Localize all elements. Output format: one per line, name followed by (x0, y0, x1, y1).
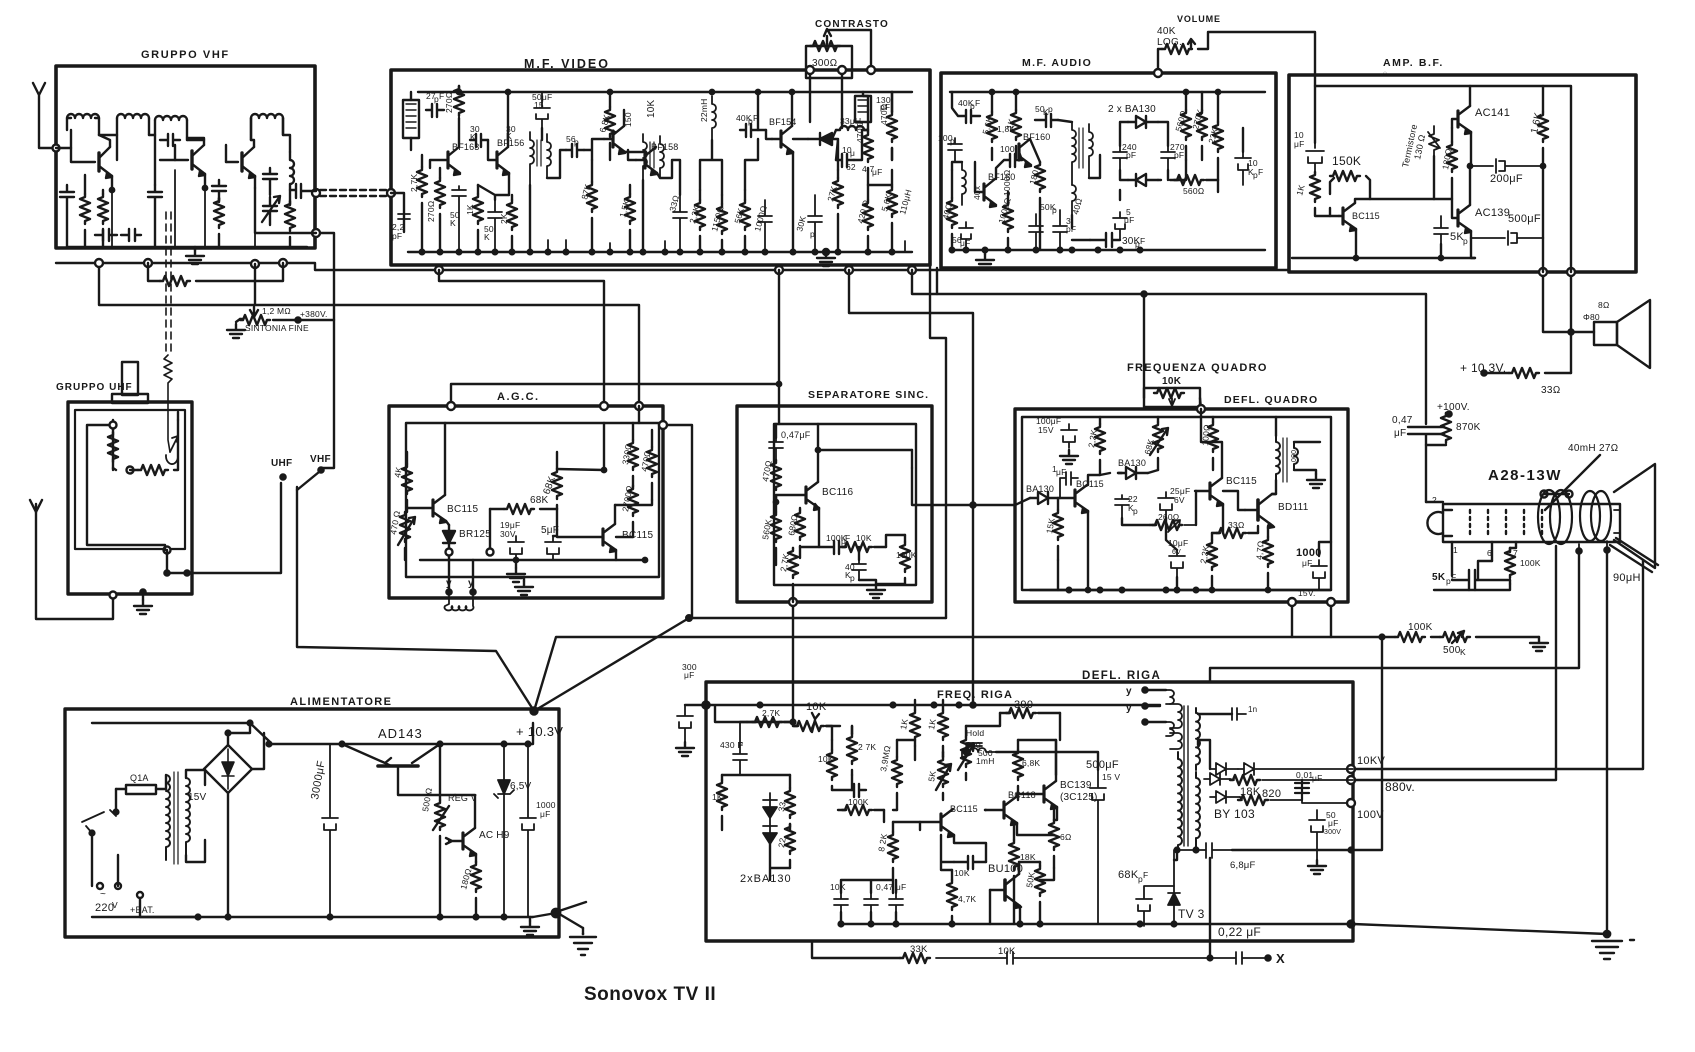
flyback y coil top (1170, 704, 1182, 728)
svg-text:15V.: 15V. (1298, 588, 1316, 598)
svg-text:pF: pF (392, 231, 402, 241)
svg-text:6,8μF: 6,8μF (1230, 860, 1255, 871)
svg-text:μF: μF (872, 167, 883, 177)
node bus dots fr (758, 703, 763, 708)
resistor 420 ohm (863, 200, 873, 230)
svg-text:2,7K: 2,7K (409, 174, 419, 192)
resistor 2,7K fr b (847, 734, 857, 764)
node junction on bus (435, 266, 443, 274)
box SEPARATORE SINC inner (774, 424, 916, 585)
node circle VHF bus c (251, 260, 259, 268)
transistor BC115 agc2 (601, 529, 604, 545)
transistor Q2 VHF (190, 151, 193, 169)
node bc116 col (816, 448, 820, 452)
yoke terminals (1541, 491, 1548, 498)
capacitor 3000uF (322, 744, 338, 917)
resistor uhf horizontal (113, 468, 138, 470)
switch blade (297, 472, 319, 490)
svg-text:4,7Ω: 4,7Ω (1254, 540, 1266, 560)
capacitor 10uF input (1306, 143, 1324, 172)
node VHF box exit (312, 229, 320, 237)
wire dq input (973, 498, 1030, 505)
label pointer 40mH (1545, 455, 1600, 510)
resistor 180 mfa (1035, 162, 1045, 192)
wire sep bottom links (819, 508, 905, 584)
svg-text:FREQUENZA QUADRO: FREQUENZA QUADRO (1127, 362, 1268, 374)
wire alim mid rail (269, 723, 533, 744)
svg-text:300Ω: 300Ω (812, 58, 838, 69)
svg-text:BU100: BU100 (988, 863, 1023, 875)
CRT neck slash (1610, 538, 1658, 572)
resistor 18K fr (1009, 840, 1019, 870)
node riga circle 100V (1347, 799, 1355, 807)
resistor 470 top right (887, 112, 897, 142)
svg-text:VHF: VHF (310, 454, 331, 465)
node converge point (531, 708, 538, 715)
box GRUPPO UHF inner (75, 410, 185, 549)
ground 300uF (676, 742, 694, 756)
capacitor 1000 (758, 200, 772, 252)
node contrasto circles (806, 66, 814, 74)
resistor 1K ampbf (1310, 172, 1320, 202)
svg-text:10μF: 10μF (1168, 538, 1188, 548)
capacitor 10K fr cap (832, 784, 866, 797)
coil 33uH (836, 126, 868, 130)
svg-text:pF: pF (1174, 150, 1184, 160)
capacitor 10K1 fr (834, 893, 848, 912)
resistor contrasto (810, 41, 840, 51)
svg-text:SEPARATORE SINC.: SEPARATORE SINC. (808, 389, 929, 401)
svg-text:BC115: BC115 (1352, 211, 1380, 221)
svg-text:A.G.C.: A.G.C. (497, 391, 540, 403)
svg-text:2 7K: 2 7K (858, 742, 876, 752)
flyback transformer core (1184, 706, 1188, 846)
node mid rail dots (340, 742, 345, 747)
svg-text:5,6K: 5,6K (980, 115, 994, 135)
svg-text:M.F. VIDEO: M.F. VIDEO (524, 57, 610, 71)
pot 68K dq (1153, 422, 1163, 452)
node dq bus dots2 (1067, 588, 1072, 593)
wire pot to box (1144, 294, 1201, 409)
svg-text:p: p (850, 573, 855, 583)
resistor 1,5K (625, 194, 635, 224)
wire agc right link (615, 500, 652, 537)
node agc bus dots (448, 559, 451, 562)
coil 1mH (962, 743, 996, 757)
resistor 2,2K dq low (1207, 540, 1217, 570)
svg-text:VOLUME: VOLUME (1177, 14, 1221, 24)
transistor BC115 dq2 (1208, 483, 1211, 499)
resistor 1K mfa (1011, 110, 1021, 140)
wire ac139 (1470, 166, 1471, 238)
capacitor 3pF low (1053, 210, 1067, 250)
svg-text:33Ω: 33Ω (1541, 385, 1561, 396)
node alim exit blob (552, 909, 560, 917)
uhf trimmer (166, 436, 178, 464)
svg-text:μF: μF (1394, 428, 1406, 439)
node mfv dots (457, 90, 461, 94)
capacitor 30KpF b (808, 195, 822, 252)
wire bridge left (204, 768, 205, 770)
wire contrasto drops (810, 74, 842, 128)
wire ac139 emitter to bus (1471, 238, 1475, 258)
node antenna in (53, 145, 60, 152)
node junction on bus (908, 266, 916, 274)
resistor 100K CRT (1509, 548, 1511, 552)
capacitor 300uF outside (677, 705, 693, 742)
svg-text:100K: 100K (896, 550, 917, 560)
fuse Q1A (126, 785, 156, 794)
capacitor C1 vhf (60, 185, 74, 247)
svg-text:p: p (574, 137, 579, 147)
node x973 dot (970, 702, 975, 707)
transistor BC118 fr (1002, 802, 1005, 818)
resistor 1K fr l (717, 780, 727, 810)
pot 10K fr (794, 721, 824, 731)
wire 500uF to bottom (1542, 238, 1544, 272)
transistor ACH9 reg (461, 833, 464, 849)
svg-text:μF: μF (1312, 773, 1323, 783)
resistor R2 vhf (98, 194, 108, 224)
transformer mains (166, 775, 170, 860)
capacitor 50KpF a (452, 186, 466, 252)
wire sep sinc drop x793 (792, 602, 794, 722)
wire bc116 collector (818, 424, 912, 482)
svg-text:500: 500 (978, 748, 993, 758)
svg-text:SINTONIA FINE: SINTONIA FINE (245, 323, 309, 333)
svg-text:1: 1 (1453, 545, 1458, 555)
svg-text:150: 150 (623, 112, 633, 127)
resistor 560ohm 270K a (1181, 110, 1191, 140)
capacitor 40KpF mfa (952, 92, 980, 123)
svg-text:F: F (738, 740, 743, 750)
capacitor 10uF 6V dq (1169, 550, 1185, 577)
svg-text:p: p (810, 229, 815, 239)
wire feed under MF AUDIO (936, 268, 938, 294)
svg-text:33K: 33K (910, 944, 928, 955)
svg-text:1,2 MΩ: 1,2 MΩ (262, 306, 291, 316)
capacitor C6 output (290, 184, 316, 198)
svg-text:40x: 40x (972, 185, 982, 200)
wire d1 left (1198, 738, 1210, 769)
svg-text:270K: 270K (1190, 108, 1205, 131)
node DEFL RIGA exits (1347, 765, 1355, 773)
resistor 6,8K (605, 107, 615, 137)
capacitor 270pF (1161, 146, 1175, 170)
svg-text:2K: 2K (499, 213, 509, 224)
svg-text:FREQ. RIGA: FREQ. RIGA (937, 689, 1013, 701)
wire transformer sec to bridge (186, 770, 205, 862)
svg-text:K: K (470, 132, 476, 142)
wire mfv links (478, 92, 892, 252)
capacitor 22KpF dq (1115, 495, 1129, 518)
wire dq links (1058, 409, 1331, 590)
transistor BF156 (495, 152, 498, 168)
pot Hold 390 (961, 737, 971, 767)
terminal +BAT (137, 892, 143, 898)
svg-text:μF: μF (1056, 467, 1067, 477)
svg-text:270Ω: 270Ω (426, 200, 436, 222)
wire uhf right column (177, 412, 179, 420)
pot 500K bottom (1440, 632, 1470, 642)
svg-text:1,5K: 1,5K (617, 198, 631, 218)
node dq input dot (970, 502, 975, 507)
capacitor 30KpF (470, 134, 488, 147)
svg-text:0,22 μF: 0,22 μF (1218, 925, 1261, 939)
resistor 33K bottom (900, 953, 930, 963)
svg-text:F: F (845, 533, 850, 543)
wire UHF out to switch (167, 483, 281, 573)
switch UHF contact (280, 474, 285, 479)
capacitor 50uF 300V (1309, 810, 1325, 860)
node circle VHF bus a (95, 259, 103, 267)
flyback secondary bottom (1196, 772, 1200, 850)
svg-text:2: 2 (1432, 495, 1437, 505)
wire sep to dq feed (912, 468, 973, 505)
svg-text:pF: pF (1066, 224, 1076, 234)
resistor 50K fr rot (1035, 866, 1045, 896)
node pot right circle (1197, 405, 1205, 413)
CRT funnel (1614, 464, 1655, 568)
node circle 19uF top (487, 549, 494, 556)
transistor BF mid (611, 131, 614, 147)
resistor 100K bottom (1395, 632, 1425, 642)
wire agc bottom bus (420, 559, 645, 561)
svg-text:BC115: BC115 (622, 530, 653, 541)
svg-text:100Ω: 100Ω (1200, 424, 1212, 447)
svg-text:270Ω: 270Ω (444, 91, 454, 113)
UHF knob (112, 394, 148, 403)
svg-text:3000μF: 3000μF (309, 760, 328, 801)
ground below alim right (582, 928, 584, 934)
wire q3 exit (255, 188, 316, 233)
svg-text:μF: μF (540, 809, 551, 819)
zener 6,5V (494, 744, 514, 917)
svg-text:10K: 10K (1162, 376, 1182, 387)
resistor R1 vhf (80, 194, 90, 224)
svg-text:1K: 1K (1294, 183, 1306, 196)
box AMP. B.F. (1289, 75, 1636, 272)
resistor 270 ohm input (435, 178, 445, 208)
svg-text:10K: 10K (806, 701, 827, 713)
resistor 2,7K sep (788, 548, 798, 578)
svg-text:500μF: 500μF (1086, 759, 1119, 771)
capacitor 0,01uF riga (1295, 780, 1309, 800)
svg-text:M.F. AUDIO: M.F. AUDIO (1022, 57, 1092, 69)
svg-text:+380V.: +380V. (300, 309, 328, 319)
svg-text:K: K (450, 218, 456, 228)
wire UHF antenna (36, 512, 113, 619)
transistor Q1 VHF (97, 153, 100, 171)
svg-text:+ 10.3V: + 10.3V (516, 724, 563, 739)
svg-text:62: 62 (846, 162, 856, 172)
svg-text:+100V.: +100V. (1437, 402, 1470, 413)
capacitor C4 vhf (212, 180, 226, 200)
capacitor interstage q2 (160, 134, 180, 160)
flyback y coil mid (1170, 733, 1182, 749)
diode riga d2 (1238, 763, 1353, 775)
node circle br125 (446, 549, 453, 556)
svg-text:880v.: 880v. (1385, 780, 1415, 794)
resistor 1K fr m1 (910, 710, 920, 740)
resistor 3,9M fr (892, 757, 902, 787)
tuning gang spring (164, 355, 172, 452)
ground 100uF (1060, 450, 1078, 464)
resistor 1150 ohm (717, 204, 727, 234)
wire 68k node (490, 509, 557, 548)
wire mfa links (952, 120, 1243, 240)
transistor BF163 (446, 152, 449, 168)
transistor BC115 dq1 (1073, 490, 1076, 506)
node fr bottom dots (839, 922, 844, 927)
svg-text:6: 6 (1487, 548, 1492, 558)
wire blob to box (533, 913, 556, 917)
node dq bottom dots (1086, 588, 1090, 592)
resistor SINTONIA FINE (240, 318, 243, 320)
CRT base dashed pins (1470, 510, 1542, 536)
svg-text:2,7K: 2,7K (762, 708, 780, 718)
wire vhf input (56, 130, 71, 148)
svg-text:1K: 1K (898, 718, 910, 730)
svg-text:AC139: AC139 (1475, 207, 1510, 219)
svg-text:10K: 10K (646, 99, 657, 118)
capacitor 50KpF mfa (1035, 114, 1058, 127)
flyback primary winding (1178, 752, 1182, 850)
capacitor 5KpF CRT (1452, 570, 1510, 590)
svg-text:15 V: 15 V (1102, 772, 1120, 782)
svg-text:DEFL. QUADRO: DEFL. QUADRO (1224, 394, 1318, 406)
svg-text:110μH: 110μH (897, 188, 913, 215)
coil y y below agc (445, 592, 474, 610)
y y terminals agc (449, 556, 473, 592)
svg-text:68K: 68K (1142, 438, 1156, 456)
wire yoke top link (1426, 494, 1569, 502)
transistor BC115 fr (939, 814, 942, 830)
capacitor 100KpF sep (800, 541, 846, 554)
resistor uhf vertical (108, 432, 118, 462)
wire Q2 (175, 138, 205, 188)
wire Q3 (226, 140, 255, 188)
pot 10K freq quadro (1144, 388, 1200, 407)
diode video det (808, 133, 832, 145)
capacitor 0,47uF sep (769, 438, 783, 460)
node UHF out (164, 547, 171, 554)
svg-text:33: 33 (776, 801, 788, 813)
resistor R3 vhf (214, 198, 224, 228)
wire amp bf to speaker left (1543, 272, 1594, 332)
resistor 4,7ohm dq (1263, 537, 1273, 567)
coil input mfa (962, 162, 966, 205)
svg-text:8 2K: 8 2K (876, 832, 889, 852)
node amp bf bottom circles (1539, 268, 1547, 276)
coil L1 (67, 114, 99, 118)
wire BF163 collector (458, 118, 460, 147)
node mfa dots (990, 90, 994, 94)
svg-text:AD143: AD143 (378, 726, 423, 741)
IF transformer audio (1072, 122, 1076, 185)
node 1,6k bottom (1541, 164, 1545, 168)
capacitor 50 KpF b (488, 200, 502, 252)
svg-text:p: p (1048, 104, 1053, 114)
ground UHF box (142, 592, 144, 600)
node X dot (1265, 955, 1270, 960)
wire ampbf bottom bus (1292, 257, 1475, 259)
svg-text:μF: μF (1302, 558, 1313, 568)
wire output down (1542, 166, 1544, 238)
svg-text:15V: 15V (188, 792, 207, 803)
ground agc 19uF (515, 560, 517, 568)
svg-text:F: F (753, 113, 758, 123)
svg-text:68K: 68K (541, 475, 558, 496)
resistor 15K dq (1053, 510, 1063, 540)
resistor 180 ohm ampbf (1447, 142, 1457, 172)
svg-text:BF163: BF163 (452, 142, 480, 152)
svg-text:100K: 100K (1408, 622, 1433, 633)
node coax ends (312, 189, 320, 197)
svg-text:2xBA130: 2xBA130 (740, 873, 792, 885)
svg-text:68K: 68K (1118, 869, 1139, 881)
diode BA130 x2 b (763, 818, 777, 844)
diode BA130 b (1128, 174, 1158, 186)
svg-text:μF: μF (1294, 139, 1305, 149)
svg-text:1K: 1K (465, 204, 475, 215)
box DEFL. RIGA outer (706, 682, 1353, 941)
resistor 270 ohm collector (454, 86, 464, 116)
svg-text:40K: 40K (1157, 26, 1176, 37)
svg-text:470Ω: 470Ω (760, 459, 774, 482)
node uhf inner circle (110, 422, 117, 429)
svg-text:3,9MΩ: 3,9MΩ (878, 744, 892, 772)
svg-text:300V: 300V (1324, 829, 1341, 836)
resistor 2,2K b (695, 200, 705, 230)
wire bridge + out (228, 723, 264, 917)
wire cap to yoke pin2 (1425, 445, 1427, 502)
svg-text:BC118: BC118 (1008, 790, 1036, 800)
svg-text:BC115: BC115 (1226, 476, 1257, 487)
resistor 1K fr m2 (938, 710, 948, 740)
svg-text:F: F (1258, 167, 1263, 177)
svg-text:p: p (1052, 205, 1057, 215)
resistor R4 vhf (285, 201, 295, 231)
svg-text:150K: 150K (1332, 154, 1361, 168)
resistor 1000 ohm low (1003, 202, 1013, 232)
wire alim top rail (92, 722, 250, 724)
svg-text:000: 000 (1291, 450, 1298, 462)
svg-text:+BAT.: +BAT. (130, 905, 155, 915)
ground mfa (984, 250, 986, 254)
transistor BC116 (804, 487, 807, 503)
svg-text:DEFL. RIGA: DEFL. RIGA (1082, 670, 1161, 682)
svg-text:560Ω: 560Ω (1183, 186, 1205, 196)
pot VOLUME (1158, 49, 1162, 73)
arrow volume wiper (1188, 39, 1195, 49)
wire x973 into box (972, 682, 974, 705)
capacitor 5uF (1113, 212, 1127, 240)
capacitor 0,47uF CRT feed (1408, 427, 1446, 445)
resistor 150K (1330, 178, 1334, 216)
speaker 8ohm (1594, 322, 1617, 345)
wire agc top wire y384 (451, 384, 779, 406)
wire to flyback (996, 740, 1056, 775)
box A.G.C. outer (389, 406, 663, 598)
wire mfv input (391, 193, 404, 232)
coil y bottom (1166, 722, 1174, 736)
yoke winding loops left (1538, 490, 1560, 544)
capacitor 1000uF alim (520, 744, 536, 917)
capacitor 5KpF ampbf (1434, 216, 1448, 244)
diode riga d3 (1204, 773, 1230, 785)
svg-text:y: y (468, 578, 474, 589)
